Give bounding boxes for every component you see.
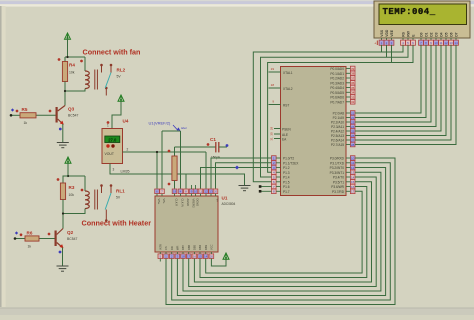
svg-text:TEMP:004_: TEMP:004_ (383, 7, 436, 17)
resistor R6 (15, 231, 18, 234)
wire LCD D2 to P2.2 (355, 45, 431, 122)
svg-text:DB5: DB5 (193, 244, 197, 250)
wire VREF/2 net (161, 131, 163, 189)
pin RST (269, 104, 281, 106)
svg-text:VSS: VSS (380, 29, 384, 37)
ADC pin box bottom 17 (186, 254, 191, 259)
relay RL2 coil (84, 57, 86, 71)
svg-text:P3.2/INT0: P3.2/INT0 (330, 166, 345, 170)
svg-text:VIN-: VIN- (162, 199, 166, 204)
wire C1 / CLK-R net (175, 146, 216, 148)
svg-text:V+: V+ (216, 199, 220, 203)
power arrow ADC VCC (211, 259, 226, 267)
pin P1.2 (272, 165, 277, 170)
svg-text:39: 39 (351, 67, 355, 71)
svg-text:Q2: Q2 (67, 230, 74, 235)
svg-text:13: 13 (209, 190, 213, 194)
wire LCD D1 to P2.1 (355, 45, 426, 118)
svg-text:5V: 5V (117, 75, 122, 79)
svg-text:22: 22 (351, 116, 355, 120)
wire LCD RW to P1.4 (261, 45, 409, 177)
svg-text:P2.2/A10: P2.2/A10 (331, 121, 344, 125)
svg-text:P2.6/A14: P2.6/A14 (331, 139, 344, 143)
svg-text:D3: D3 (435, 32, 439, 36)
wire LCD D3 to P2.3 (355, 45, 436, 127)
svg-text:20: 20 (210, 255, 214, 259)
transistor Q2 (48, 233, 51, 236)
svg-text:C1: C1 (210, 137, 216, 142)
svg-text:14: 14 (351, 175, 355, 179)
wire LCD E to P1.5 (268, 45, 413, 173)
svg-text:P0.0/AD0: P0.0/AD0 (330, 67, 344, 71)
svg-text:VOUT: VOUT (105, 152, 114, 156)
svg-text:D7: D7 (455, 32, 459, 36)
ADC pin box bottom 3 (175, 254, 180, 259)
pin P1.1 (272, 161, 277, 166)
svg-text:D5: D5 (445, 32, 449, 36)
pin P3.0 (350, 156, 355, 161)
svg-text:15: 15 (198, 255, 202, 259)
svg-text:DB3: DB3 (204, 244, 208, 250)
pin XTAL1 (269, 71, 281, 73)
wire ADC DB to P3.7 bundle (206, 191, 362, 273)
wire ADC DB to P3.5 bundle (194, 182, 371, 282)
svg-text:CS: CS (164, 246, 168, 250)
svg-text:29: 29 (270, 127, 274, 131)
ADC pin box top 9 (189, 189, 194, 194)
relay RL1 contact pins (101, 186, 103, 193)
wire RL1 coil to collector node (63, 209, 85, 214)
svg-text:LM35: LM35 (121, 170, 130, 174)
svg-text:DB7: DB7 (181, 244, 185, 250)
svg-text:Connect with fan: Connect with fan (83, 48, 141, 57)
svg-text:25: 25 (351, 129, 355, 133)
pin P0.6 (350, 95, 355, 100)
svg-text:38: 38 (351, 72, 355, 76)
pin P1.3 (272, 170, 277, 175)
svg-text:23: 23 (351, 120, 355, 124)
svg-text:VCC: VCC (210, 244, 214, 250)
pin P0.7 (350, 100, 355, 105)
wire ADC DB to P3.2 bundle (177, 168, 385, 296)
svg-text:34: 34 (351, 91, 355, 95)
svg-text:U1(VREF/2): U1(VREF/2) (149, 121, 171, 126)
svg-text:2: 2 (127, 148, 129, 152)
svg-text:10k: 10k (69, 193, 75, 197)
svg-text:P3.6/WR: P3.6/WR (331, 185, 344, 189)
svg-text:BC547: BC547 (67, 237, 77, 241)
wire ADC pin to P1.2 (201, 168, 272, 189)
pin ALE (274, 133, 281, 135)
svg-text:17: 17 (351, 190, 355, 194)
pin PSEN (274, 128, 281, 130)
svg-text:10: 10 (351, 156, 355, 160)
svg-text:17: 17 (187, 255, 191, 259)
svg-text:28: 28 (351, 143, 355, 147)
wire ADC pin to P1.1 (216, 163, 272, 189)
ground below Q3 (57, 143, 69, 148)
svg-text:WR: WR (176, 246, 180, 250)
svg-text:P3.1/TXD: P3.1/TXD (330, 162, 345, 166)
svg-text:VDD: VDD (385, 29, 389, 37)
svg-text:label: label (181, 126, 187, 130)
left window band (0, 6, 2, 307)
svg-text:11: 11 (351, 161, 354, 165)
ADC pin box top 6 (155, 189, 160, 194)
svg-text:P2.3/A11: P2.3/A11 (331, 125, 344, 129)
svg-text:CLK R: CLK R (175, 199, 179, 207)
svg-text:P0.1/AD1: P0.1/AD1 (330, 72, 344, 76)
pin P0.4 (350, 85, 355, 90)
svg-text:P3.0/RXD: P3.0/RXD (330, 157, 345, 161)
svg-text:XTAL2: XTAL2 (283, 87, 293, 91)
relay RL1 pole (105, 210, 107, 221)
svg-text:31: 31 (270, 137, 274, 141)
resistor R5 (11, 108, 14, 111)
svg-text:P1.1/T2EX: P1.1/T2EX (283, 162, 299, 166)
ADC pin box top 11 (198, 189, 203, 194)
ADC pin box top 19 (172, 189, 177, 194)
wire LCD D6 to P2.6 (355, 45, 451, 140)
svg-text:5V: 5V (116, 196, 121, 200)
wire RL2 coil to collector node (65, 89, 85, 91)
svg-text:P0.2/AD2: P0.2/AD2 (330, 77, 344, 81)
wire ADC DB to P3.0 bundle (166, 158, 395, 305)
svg-text:14: 14 (454, 41, 458, 45)
svg-text:P0.6/AD6: P0.6/AD6 (330, 96, 344, 100)
svg-text:P1.3: P1.3 (283, 171, 290, 175)
svg-text:DGND: DGND (196, 199, 200, 207)
svg-text:ALE: ALE (282, 133, 288, 137)
wire LCD D7 to P2.7 (355, 45, 456, 145)
resistor R4 (64, 57, 66, 62)
pin P2.0 (350, 111, 355, 116)
wire node to relay RL2 coil (65, 56, 85, 58)
power arrow VCC LM35 (118, 95, 124, 101)
svg-text:Q3: Q3 (68, 107, 75, 112)
ADC pin box top 13 (209, 189, 214, 194)
ADC pin box top 7 (160, 189, 165, 194)
svg-text:D2: D2 (430, 32, 434, 36)
svg-text:D1: D1 (425, 32, 429, 36)
svg-text:P1.4: P1.4 (283, 176, 290, 180)
svg-text:XTAL1: XTAL1 (283, 71, 293, 75)
svg-text:P2.0/A8: P2.0/A8 (333, 112, 345, 116)
LCD pin1 marker (376, 41, 378, 46)
ADC pin box bottom 16 (192, 254, 197, 259)
svg-text:19: 19 (271, 67, 275, 71)
ADC pin box top 20 (213, 189, 218, 194)
svg-text:24: 24 (351, 125, 355, 129)
ADC pin box bottom 5 (158, 254, 163, 259)
power arrow VCC heater (65, 157, 71, 163)
svg-text:13: 13 (449, 41, 453, 45)
ground below Q2 (57, 266, 69, 271)
resistor R1 (CLK R) (168, 150, 171, 153)
svg-text:13: 13 (351, 171, 355, 175)
wire ADC DB to P3.4 bundle (189, 177, 377, 287)
svg-text:D0: D0 (420, 32, 424, 36)
svg-text:P1.2: P1.2 (283, 166, 290, 170)
ground for LM35 / ADC analog (239, 186, 251, 191)
svg-text:19: 19 (173, 190, 177, 194)
svg-text:16: 16 (193, 255, 197, 259)
svg-text:32: 32 (351, 100, 355, 104)
ADC pin box bottom 1 (164, 254, 169, 259)
pin P3.2 (350, 165, 355, 170)
resistor R3 (63, 176, 68, 183)
top window band (0, 0, 474, 1)
svg-text:VREF/2: VREF/2 (192, 199, 196, 209)
bottom window band (0, 308, 474, 316)
svg-text:27: 27 (351, 138, 355, 142)
svg-text:18: 18 (181, 255, 185, 259)
svg-text:12: 12 (204, 190, 208, 194)
pin P3.1 (350, 161, 355, 166)
pin P2.2 (350, 120, 355, 125)
wire ADC DB to P3.3 bundle (183, 172, 381, 291)
svg-text:10: 10 (434, 41, 438, 45)
pin P2.1 (350, 115, 355, 120)
wire LCD RS to P1.3 (253, 45, 403, 182)
pin XTAL2 (269, 87, 281, 89)
svg-text:P1.0/T2: P1.0/T2 (283, 157, 294, 161)
svg-text:P1.6: P1.6 (283, 185, 290, 189)
svg-text:RW: RW (407, 30, 411, 36)
svg-text:R6: R6 (27, 231, 33, 236)
svg-text:35: 35 (351, 86, 355, 90)
wire R3 to Q2 collector (62, 200, 64, 229)
svg-text:DB6: DB6 (187, 244, 191, 250)
svg-text:D4: D4 (440, 32, 444, 36)
svg-text:18: 18 (271, 83, 275, 87)
svg-text:P3.5/T1: P3.5/T1 (333, 181, 344, 185)
pin P1.0 (272, 156, 277, 161)
svg-text:R4: R4 (69, 63, 75, 68)
sensor U4 LM35 (107, 121, 110, 124)
pin P3.5 (350, 180, 355, 185)
wire VIN net drop (205, 152, 207, 189)
svg-text:P0.5/AD5: P0.5/AD5 (330, 91, 344, 95)
svg-text:11: 11 (199, 190, 202, 194)
pin P0.1 (350, 71, 355, 76)
wire ADC AGND to ground line (185, 174, 187, 189)
svg-text:INTR: INTR (159, 244, 163, 250)
LCD screen (379, 4, 467, 25)
svg-text:P1.7: P1.7 (283, 190, 290, 194)
svg-text:VIN+: VIN+ (157, 199, 161, 205)
svg-text:CLK IN: CLK IN (181, 199, 185, 207)
pin P0.3 (350, 81, 355, 86)
wire Q2 emitter to ground (62, 248, 64, 267)
svg-text:BC547: BC547 (68, 114, 78, 118)
pin P0.5 (350, 90, 355, 95)
svg-text:33: 33 (351, 95, 355, 99)
pin P0.2 (350, 76, 355, 81)
ADC pin box bottom 20 (209, 254, 214, 259)
ADC pin box top 12 (204, 189, 209, 194)
svg-text:10: 10 (194, 190, 198, 194)
svg-text:R3: R3 (69, 185, 75, 190)
pin P3.6 (350, 184, 355, 189)
ADC pin box top 4 (178, 189, 183, 194)
pin P2.3 (350, 124, 355, 129)
svg-text:RS: RS (402, 31, 406, 36)
svg-text:U1: U1 (222, 196, 228, 201)
pin P2.7 (350, 142, 355, 147)
svg-text:1k: 1k (28, 245, 32, 249)
svg-text:37: 37 (351, 76, 355, 80)
ADC pin box bottom 14 (203, 254, 208, 259)
IC U1 ADC0804 body (155, 196, 218, 252)
svg-text:15: 15 (351, 180, 355, 184)
pin P0.0 (350, 66, 355, 71)
wire LCD VSS drop (381, 45, 383, 52)
svg-text:VEE: VEE (390, 29, 394, 37)
wire ADC pin to P1.0 (211, 158, 272, 189)
relay RL2 contact pins (101, 66, 103, 73)
pin P3.4 (350, 175, 355, 180)
svg-text:12: 12 (444, 41, 448, 45)
svg-text:PSEN: PSEN (282, 128, 291, 132)
svg-text:P0.4/AD4: P0.4/AD4 (330, 86, 344, 90)
pin P1.5 (272, 180, 277, 185)
pin P1.6 (272, 184, 277, 189)
svg-text:RL2: RL2 (117, 68, 126, 73)
svg-text:P3.4/T0: P3.4/T0 (333, 176, 344, 180)
stub P1.6 unconnected (260, 186, 272, 188)
IC U2 8051 body (281, 67, 347, 196)
wire LCD VDD drop (386, 45, 388, 57)
ADC pin box bottom 15 (198, 254, 203, 259)
svg-text:+: + (374, 42, 376, 46)
pin P1.7 (272, 189, 277, 194)
svg-text:DB4: DB4 (198, 244, 202, 250)
svg-text:ADC0804: ADC0804 (222, 202, 236, 206)
svg-text:P1.5: P1.5 (283, 181, 290, 185)
wire LCD VEE drop (391, 45, 393, 63)
svg-text:21: 21 (351, 111, 355, 115)
pin P2.5 (350, 133, 355, 138)
svg-text:RL1: RL1 (116, 189, 125, 194)
svg-text:27.0: 27.0 (108, 138, 117, 143)
svg-text:14: 14 (204, 255, 208, 259)
wire ADC DB to P3.1 bundle (172, 163, 391, 300)
svg-text:26: 26 (351, 134, 355, 138)
svg-text:1k: 1k (24, 121, 28, 125)
svg-text:36: 36 (351, 81, 355, 85)
svg-text:P0.3/AD3: P0.3/AD3 (330, 82, 344, 86)
wire LCD D0 to P2.0 (355, 45, 421, 113)
svg-text:10k: 10k (69, 71, 75, 75)
node to RL1 coil (68, 175, 85, 177)
pin P2.6 (350, 138, 355, 143)
wire LCD D5 to P2.5 (355, 45, 446, 136)
pin P3.7 (350, 189, 355, 194)
svg-text:P0.7/AD7: P0.7/AD7 (330, 101, 344, 105)
svg-text:P3.7/RD: P3.7/RD (332, 190, 345, 194)
svg-text:D6: D6 (450, 32, 454, 36)
transistor Q3 (49, 110, 52, 113)
pin EA (274, 138, 281, 140)
pin P1.4 (272, 175, 277, 180)
wire ADC DB to P3.6 bundle (200, 187, 367, 278)
svg-text:RD: RD (170, 246, 174, 250)
svg-text:P2.7/A15: P2.7/A15 (331, 143, 344, 147)
pin P3.3 (350, 170, 355, 175)
svg-text:U4: U4 (123, 119, 129, 124)
ADC pin box top 10 (193, 189, 198, 194)
relay RL1 coil (84, 176, 86, 191)
svg-text:R5: R5 (22, 107, 28, 112)
pin P2.4 (350, 129, 355, 134)
wire Q3 emitter to ground (62, 124, 64, 143)
LCD LM016L frame (374, 1, 470, 38)
svg-text:P2.5/A13: P2.5/A13 (331, 134, 344, 138)
ADC pin box bottom 2 (169, 254, 174, 259)
svg-text:RST: RST (283, 104, 289, 108)
svg-text:AGND: AGND (186, 199, 190, 207)
svg-text:12: 12 (351, 166, 355, 170)
svg-text:3: 3 (113, 168, 115, 172)
svg-text:P3.3/INT1: P3.3/INT1 (330, 171, 345, 175)
wire R4 to Q3 collector (64, 82, 66, 106)
stub P1.7 unconnected (260, 190, 272, 192)
svg-text:Connect with Heater: Connect with Heater (82, 219, 152, 228)
svg-text:20: 20 (214, 190, 218, 194)
svg-text:16: 16 (351, 185, 355, 189)
svg-text:1: 1 (107, 124, 109, 128)
svg-text:11: 11 (439, 41, 442, 45)
ADC pin box top 8 (184, 189, 189, 194)
relay RL2 pole (105, 89, 107, 96)
wire LCD D4 to P2.4 (355, 45, 441, 131)
svg-text:P2.1/A9: P2.1/A9 (333, 116, 345, 120)
power arrow VCC fan (65, 33, 71, 39)
svg-text:30: 30 (270, 132, 274, 136)
node VOUT to ADC VIN+ (156, 152, 158, 189)
ADC pin box bottom 18 (181, 254, 186, 259)
svg-text:P2.4/A12: P2.4/A12 (331, 130, 344, 134)
